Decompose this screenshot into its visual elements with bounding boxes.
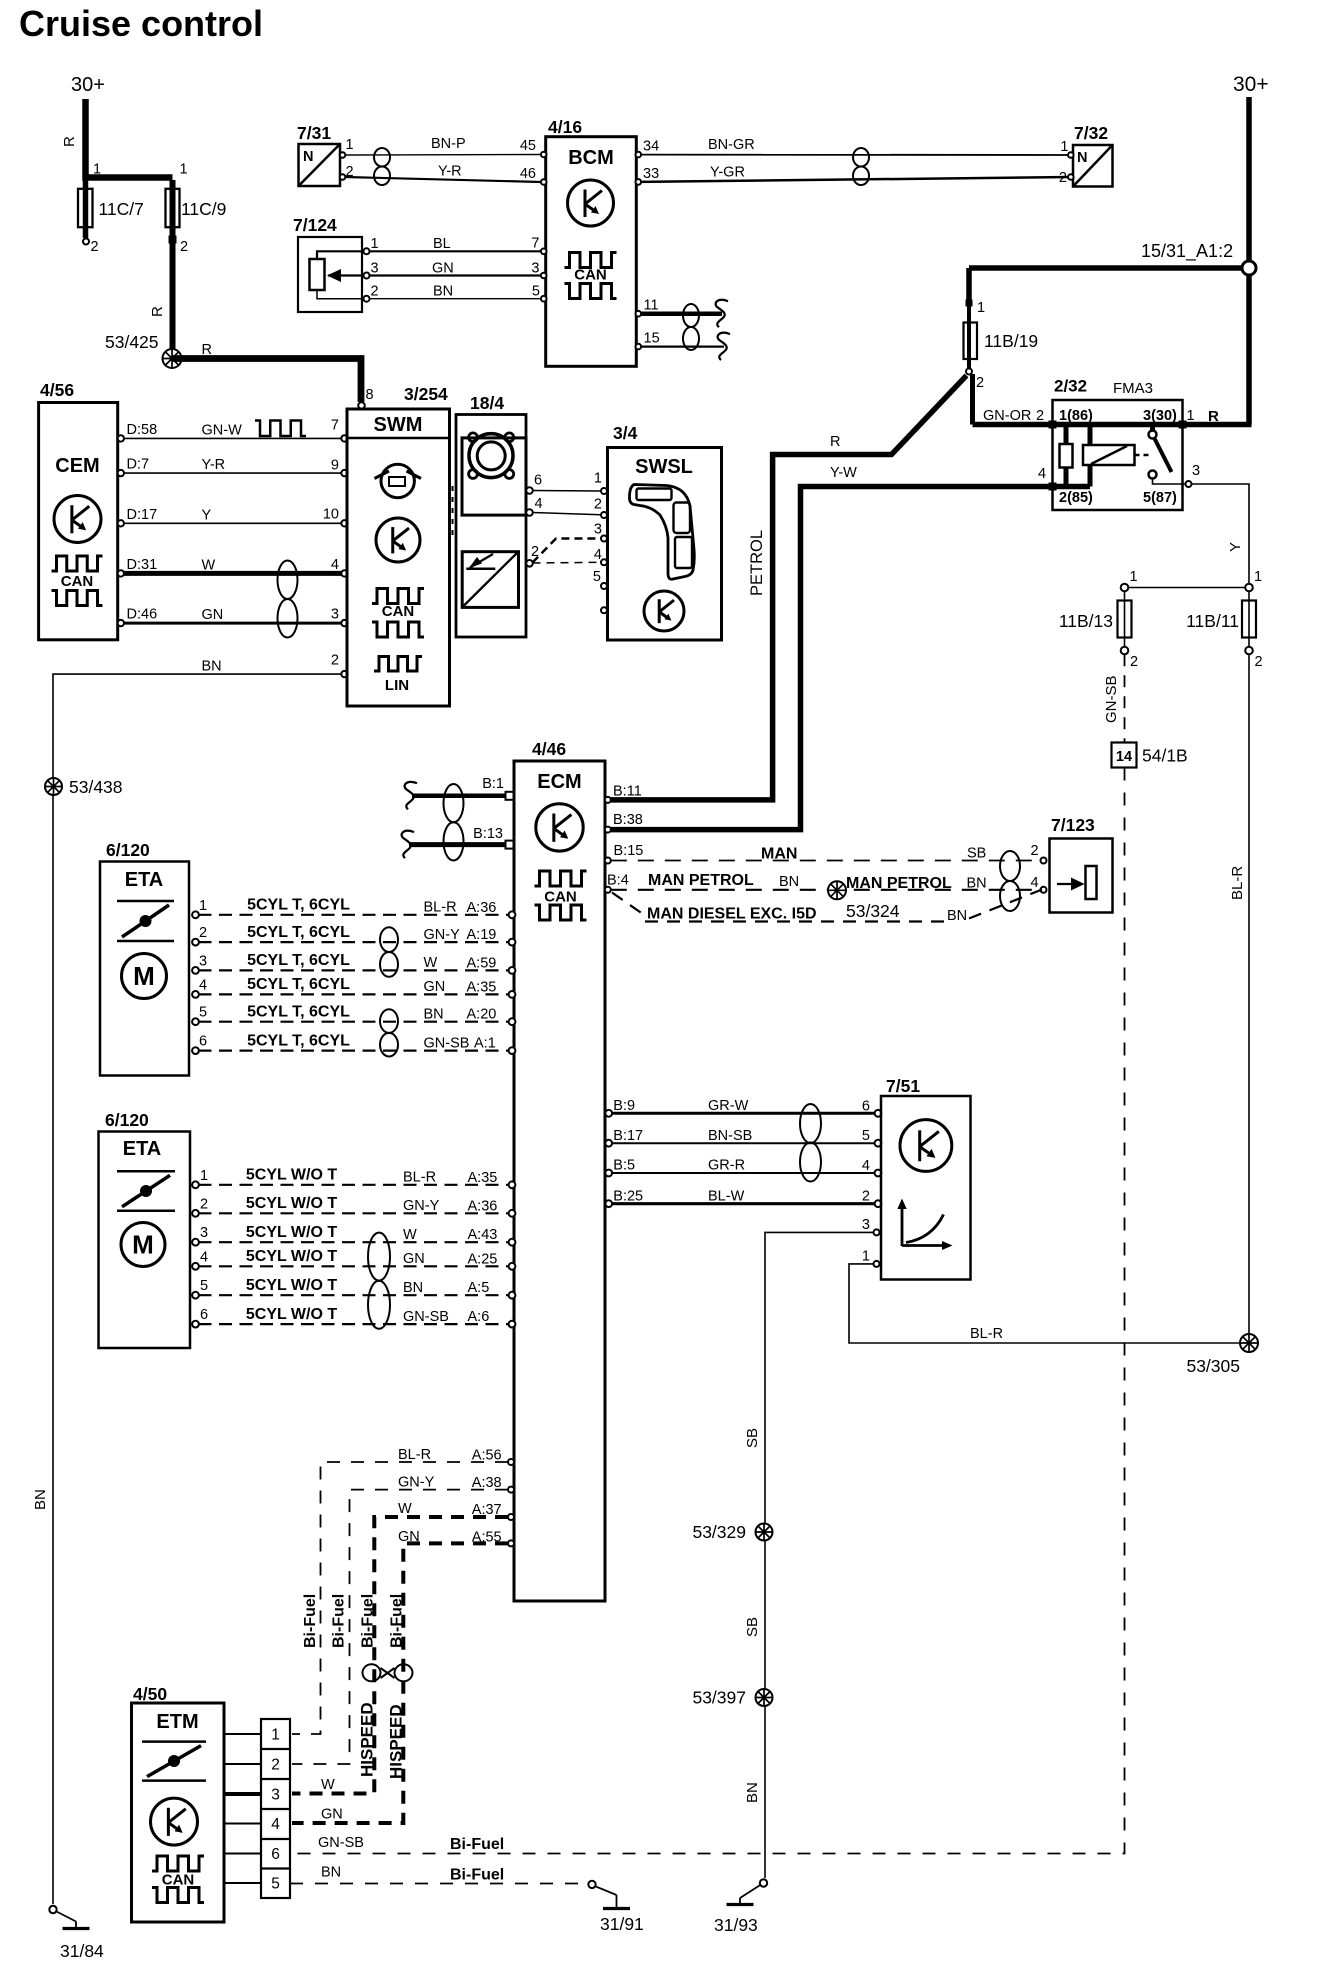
- svg-text:R: R: [149, 306, 166, 317]
- svg-text:11B/19: 11B/19: [984, 331, 1038, 351]
- svg-text:54/1B: 54/1B: [1142, 746, 1188, 766]
- svg-text:53/324: 53/324: [846, 901, 900, 921]
- svg-text:BL-R: BL-R: [398, 1447, 431, 1463]
- svg-text:M: M: [133, 961, 155, 991]
- svg-text:BN: BN: [967, 875, 987, 891]
- svg-text:10: 10: [323, 506, 339, 522]
- svg-text:GR-R: GR-R: [708, 1158, 745, 1174]
- svg-text:4/16: 4/16: [548, 117, 582, 137]
- svg-text:D:17: D:17: [127, 507, 158, 523]
- svg-text:Cruise control: Cruise control: [19, 3, 263, 44]
- svg-text:R: R: [1208, 408, 1219, 425]
- svg-text:1: 1: [862, 1249, 870, 1265]
- svg-text:GN: GN: [403, 1251, 425, 1267]
- svg-text:34: 34: [643, 139, 659, 155]
- svg-text:N: N: [1077, 150, 1087, 166]
- svg-text:GN-OR: GN-OR: [983, 408, 1031, 424]
- svg-text:11C/7: 11C/7: [99, 199, 144, 219]
- svg-text:CAN: CAN: [544, 889, 577, 906]
- svg-text:2: 2: [862, 1189, 870, 1205]
- svg-text:BN-GR: BN-GR: [708, 137, 755, 153]
- svg-text:5: 5: [200, 1278, 208, 1294]
- svg-text:Y-W: Y-W: [830, 465, 857, 481]
- svg-text:5CYL W/O T: 5CYL W/O T: [246, 1248, 337, 1265]
- svg-text:46: 46: [520, 166, 536, 182]
- svg-text:BN: BN: [403, 1280, 423, 1296]
- svg-text:2: 2: [331, 653, 339, 669]
- svg-text:GN-Y: GN-Y: [424, 927, 461, 943]
- svg-text:PETROL: PETROL: [748, 530, 766, 596]
- svg-text:30+: 30+: [71, 74, 105, 96]
- svg-text:4: 4: [1031, 875, 1039, 891]
- svg-text:R: R: [61, 136, 78, 147]
- svg-text:5CYL T, 6CYL: 5CYL T, 6CYL: [247, 897, 350, 914]
- svg-text:Y-R: Y-R: [438, 164, 462, 180]
- svg-text:3: 3: [531, 261, 539, 277]
- svg-text:Bi-Fuel: Bi-Fuel: [450, 1836, 504, 1853]
- svg-text:BN: BN: [433, 284, 453, 300]
- svg-text:7/32: 7/32: [1074, 123, 1108, 143]
- svg-text:4/50: 4/50: [133, 1684, 167, 1704]
- svg-text:4/46: 4/46: [532, 739, 566, 759]
- svg-text:5CYL W/O T: 5CYL W/O T: [246, 1277, 337, 1294]
- svg-text:A:35: A:35: [467, 979, 497, 995]
- svg-text:1: 1: [1254, 569, 1262, 585]
- svg-text:5CYL T, 6CYL: 5CYL T, 6CYL: [247, 1032, 350, 1049]
- svg-text:5: 5: [271, 1876, 280, 1893]
- svg-text:B:5: B:5: [613, 1158, 635, 1174]
- svg-text:BN: BN: [321, 1865, 341, 1881]
- svg-text:GR-W: GR-W: [708, 1098, 749, 1114]
- svg-text:5CYL W/O T: 5CYL W/O T: [246, 1306, 337, 1323]
- svg-text:BN-P: BN-P: [431, 136, 466, 152]
- svg-text:SB: SB: [967, 846, 986, 862]
- svg-text:B:38: B:38: [613, 812, 643, 828]
- svg-text:CAN: CAN: [61, 573, 94, 590]
- svg-text:6: 6: [862, 1098, 870, 1114]
- svg-text:2: 2: [594, 497, 602, 513]
- svg-text:5CYL T, 6CYL: 5CYL T, 6CYL: [247, 1003, 350, 1020]
- svg-text:B:17: B:17: [613, 1128, 643, 1144]
- svg-text:2: 2: [976, 375, 984, 391]
- svg-text:Y-GR: Y-GR: [710, 165, 745, 181]
- svg-text:1: 1: [1187, 408, 1195, 424]
- svg-text:2: 2: [1031, 843, 1039, 859]
- svg-text:9: 9: [331, 457, 339, 473]
- svg-text:4: 4: [862, 1158, 870, 1174]
- svg-text:A:55: A:55: [472, 1530, 502, 1546]
- svg-text:B:1: B:1: [482, 776, 504, 792]
- svg-text:5: 5: [862, 1128, 870, 1144]
- svg-text:A:1: A:1: [474, 1036, 496, 1052]
- svg-text:Bi-Fuel: Bi-Fuel: [302, 1594, 319, 1648]
- svg-text:2(85): 2(85): [1059, 490, 1093, 506]
- svg-text:BN: BN: [947, 908, 967, 924]
- svg-text:GN: GN: [321, 1807, 343, 1823]
- svg-text:GN-Y: GN-Y: [403, 1198, 440, 1214]
- svg-text:3/4: 3/4: [613, 423, 638, 443]
- svg-text:4/56: 4/56: [40, 380, 74, 400]
- svg-text:2: 2: [91, 239, 99, 255]
- svg-text:D:46: D:46: [127, 607, 158, 623]
- svg-text:BN: BN: [424, 1006, 444, 1022]
- svg-text:8: 8: [366, 387, 374, 403]
- svg-text:5CYL W/O T: 5CYL W/O T: [246, 1224, 337, 1241]
- svg-text:53/425: 53/425: [105, 332, 159, 352]
- svg-text:A:5: A:5: [468, 1280, 490, 1296]
- svg-text:GN: GN: [424, 979, 446, 995]
- svg-text:53/438: 53/438: [69, 777, 123, 797]
- svg-text:W: W: [202, 557, 216, 573]
- svg-text:5CYL W/O T: 5CYL W/O T: [246, 1195, 337, 1212]
- svg-text:1: 1: [1130, 569, 1138, 585]
- svg-text:45: 45: [520, 138, 536, 154]
- svg-text:7: 7: [331, 417, 339, 433]
- svg-text:Bi-Fuel: Bi-Fuel: [389, 1594, 406, 1648]
- svg-text:1: 1: [977, 300, 985, 316]
- svg-text:A:38: A:38: [472, 1475, 502, 1491]
- svg-text:CAN: CAN: [574, 267, 607, 284]
- svg-text:GN: GN: [202, 607, 224, 623]
- svg-text:7: 7: [531, 236, 539, 252]
- svg-text:CAN: CAN: [382, 603, 415, 620]
- svg-text:3: 3: [200, 1225, 208, 1241]
- svg-text:GN-SB: GN-SB: [403, 1309, 449, 1325]
- svg-text:1: 1: [594, 471, 602, 487]
- svg-text:MAN PETROL: MAN PETROL: [648, 872, 754, 889]
- svg-text:5: 5: [593, 569, 601, 585]
- svg-text:LIN: LIN: [385, 677, 409, 694]
- svg-text:6: 6: [271, 1846, 280, 1863]
- svg-text:BL: BL: [433, 236, 451, 252]
- svg-text:5CYL T, 6CYL: 5CYL T, 6CYL: [247, 924, 350, 941]
- svg-text:W: W: [403, 1227, 417, 1243]
- svg-text:11B/13: 11B/13: [1059, 611, 1113, 631]
- svg-text:A:6: A:6: [468, 1309, 490, 1325]
- svg-text:5: 5: [199, 1005, 207, 1021]
- svg-text:HISPEED: HISPEED: [387, 1704, 406, 1779]
- svg-text:2: 2: [1130, 654, 1138, 670]
- svg-text:4: 4: [331, 557, 339, 573]
- svg-text:14: 14: [1116, 749, 1132, 765]
- svg-text:7/124: 7/124: [293, 215, 337, 235]
- svg-text:BN: BN: [32, 1489, 49, 1510]
- svg-text:GN: GN: [398, 1529, 420, 1545]
- svg-text:A:37: A:37: [472, 1502, 502, 1518]
- svg-text:MAN DIESEL EXC. I5D: MAN DIESEL EXC. I5D: [647, 906, 817, 923]
- svg-text:MAN: MAN: [761, 846, 797, 863]
- svg-text:ETM: ETM: [156, 1711, 198, 1733]
- svg-text:A:25: A:25: [468, 1251, 498, 1267]
- svg-text:W: W: [321, 1777, 335, 1793]
- svg-text:GN-SB: GN-SB: [1103, 675, 1120, 723]
- svg-text:6/120: 6/120: [106, 840, 150, 860]
- svg-text:11C/9: 11C/9: [181, 199, 226, 219]
- svg-text:ETA: ETA: [125, 869, 164, 891]
- svg-text:BN: BN: [744, 1782, 761, 1803]
- svg-text:53/329: 53/329: [692, 1522, 746, 1542]
- svg-text:3: 3: [199, 953, 207, 969]
- svg-text:11: 11: [644, 298, 659, 314]
- svg-text:A:56: A:56: [472, 1448, 502, 1464]
- svg-text:MAN PETROL: MAN PETROL: [846, 875, 952, 892]
- svg-text:R: R: [830, 434, 840, 450]
- svg-text:A:19: A:19: [467, 927, 497, 943]
- svg-text:3(30): 3(30): [1143, 408, 1177, 424]
- svg-text:6: 6: [534, 473, 542, 489]
- svg-text:B:25: B:25: [613, 1188, 643, 1204]
- svg-text:D:31: D:31: [127, 557, 158, 573]
- svg-text:SB: SB: [744, 1617, 761, 1637]
- svg-text:BL-R: BL-R: [403, 1170, 436, 1186]
- svg-text:R: R: [202, 342, 212, 358]
- svg-text:2: 2: [1255, 654, 1263, 670]
- svg-text:7/123: 7/123: [1051, 815, 1095, 835]
- svg-text:ECM: ECM: [537, 771, 581, 793]
- svg-text:N: N: [303, 149, 313, 165]
- svg-text:B:9: B:9: [613, 1098, 635, 1114]
- svg-text:M: M: [132, 1230, 154, 1260]
- svg-text:1: 1: [1060, 139, 1068, 155]
- svg-text:18/4: 18/4: [470, 393, 504, 413]
- svg-text:4: 4: [199, 977, 207, 993]
- svg-text:3: 3: [271, 1787, 280, 1804]
- svg-text:53/397: 53/397: [692, 1688, 746, 1708]
- svg-text:GN-W: GN-W: [202, 422, 243, 438]
- svg-text:3: 3: [371, 261, 379, 277]
- svg-text:BN: BN: [202, 658, 222, 674]
- svg-text:Y: Y: [1227, 542, 1244, 552]
- svg-text:4: 4: [271, 1816, 280, 1833]
- svg-text:CAN: CAN: [162, 1872, 195, 1889]
- svg-text:W: W: [424, 955, 438, 971]
- svg-text:11B/11: 11B/11: [1186, 611, 1239, 631]
- svg-text:GN-SB: GN-SB: [424, 1035, 470, 1051]
- svg-text:31/84: 31/84: [60, 1941, 104, 1961]
- svg-text:2: 2: [1059, 170, 1067, 186]
- svg-text:B:11: B:11: [613, 784, 642, 800]
- svg-text:D:58: D:58: [127, 422, 158, 438]
- svg-text:15: 15: [644, 331, 660, 347]
- svg-text:A:43: A:43: [468, 1227, 498, 1243]
- svg-text:6: 6: [200, 1307, 208, 1323]
- svg-text:4: 4: [594, 547, 602, 563]
- svg-text:1: 1: [271, 1727, 280, 1744]
- svg-text:B:15: B:15: [614, 843, 644, 859]
- svg-text:B:13: B:13: [473, 826, 503, 842]
- svg-text:A:59: A:59: [467, 955, 497, 971]
- svg-text:A:36: A:36: [467, 900, 497, 916]
- svg-text:BN: BN: [779, 874, 799, 890]
- svg-text:5CYL T, 6CYL: 5CYL T, 6CYL: [247, 952, 350, 969]
- svg-text:53/305: 53/305: [1186, 1356, 1240, 1376]
- svg-text:ETA: ETA: [123, 1138, 162, 1160]
- svg-text:3: 3: [594, 522, 602, 538]
- svg-text:2: 2: [1036, 408, 1044, 424]
- svg-text:6/120: 6/120: [105, 1110, 149, 1130]
- svg-text:3: 3: [1192, 463, 1200, 479]
- svg-text:2: 2: [180, 239, 188, 255]
- svg-text:1: 1: [371, 236, 379, 252]
- svg-text:1: 1: [180, 162, 188, 178]
- svg-text:1: 1: [199, 898, 207, 914]
- svg-text:W: W: [398, 1501, 412, 1517]
- svg-text:Bi-Fuel: Bi-Fuel: [450, 1867, 504, 1884]
- svg-text:31/93: 31/93: [714, 1915, 758, 1935]
- svg-text:A:35: A:35: [468, 1170, 498, 1186]
- svg-text:4: 4: [200, 1249, 208, 1265]
- svg-text:2: 2: [200, 1196, 208, 1212]
- svg-text:1: 1: [346, 137, 354, 153]
- svg-text:SWSL: SWSL: [635, 456, 693, 478]
- svg-text:BL-W: BL-W: [708, 1188, 745, 1204]
- svg-text:7/51: 7/51: [886, 1076, 920, 1096]
- svg-text:BCM: BCM: [568, 147, 614, 169]
- svg-text:D:7: D:7: [127, 457, 150, 473]
- svg-text:A:20: A:20: [467, 1007, 497, 1023]
- svg-text:A:36: A:36: [468, 1198, 498, 1214]
- svg-text:BL-R: BL-R: [970, 1326, 1003, 1342]
- svg-text:2/32: 2/32: [1054, 377, 1087, 396]
- svg-text:1: 1: [200, 1168, 208, 1184]
- svg-text:5CYL W/O T: 5CYL W/O T: [246, 1167, 337, 1184]
- svg-text:4: 4: [1038, 466, 1046, 482]
- svg-text:HISPEED: HISPEED: [358, 1702, 377, 1777]
- svg-text:2: 2: [271, 1757, 280, 1774]
- svg-text:Y: Y: [202, 507, 212, 523]
- svg-text:BN-SB: BN-SB: [708, 1128, 752, 1144]
- svg-text:GN-Y: GN-Y: [398, 1475, 435, 1491]
- svg-text:1: 1: [93, 162, 101, 178]
- svg-text:BL-R: BL-R: [424, 900, 457, 916]
- svg-text:3/254: 3/254: [404, 384, 448, 404]
- svg-text:15/31_A1:2: 15/31_A1:2: [1141, 241, 1233, 262]
- svg-text:31/91: 31/91: [600, 1914, 644, 1934]
- svg-text:2: 2: [371, 284, 379, 300]
- svg-text:FMA3: FMA3: [1113, 380, 1153, 397]
- svg-text:5CYL T, 6CYL: 5CYL T, 6CYL: [247, 976, 350, 993]
- svg-text:Bi-Fuel: Bi-Fuel: [331, 1594, 348, 1648]
- svg-text:2: 2: [199, 925, 207, 941]
- svg-text:30+: 30+: [1233, 73, 1269, 96]
- svg-text:B:4: B:4: [607, 873, 629, 889]
- svg-text:Bi-Fuel: Bi-Fuel: [360, 1594, 377, 1648]
- svg-text:5: 5: [532, 284, 540, 300]
- svg-text:3: 3: [862, 1217, 870, 1233]
- svg-text:7/31: 7/31: [297, 123, 331, 143]
- svg-text:GN: GN: [432, 261, 454, 277]
- svg-text:6: 6: [199, 1034, 207, 1050]
- svg-text:CEM: CEM: [55, 455, 99, 477]
- svg-text:5(87): 5(87): [1143, 490, 1177, 506]
- svg-text:BL-R: BL-R: [1229, 866, 1246, 900]
- svg-text:1(86): 1(86): [1059, 408, 1093, 424]
- svg-text:GN-SB: GN-SB: [318, 1835, 364, 1851]
- svg-text:SWM: SWM: [374, 414, 423, 436]
- svg-text:SB: SB: [744, 1428, 761, 1448]
- svg-text:Y-R: Y-R: [202, 457, 226, 473]
- svg-text:3: 3: [331, 607, 339, 623]
- svg-text:33: 33: [643, 166, 659, 182]
- svg-text:4: 4: [535, 496, 543, 512]
